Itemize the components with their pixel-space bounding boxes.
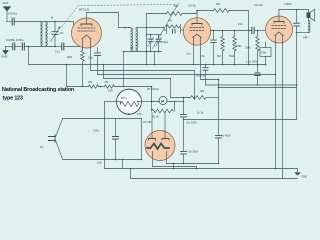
resistor R5 [234,31,236,65]
tube V1 plate [81,23,92,25]
junction node [28,46,30,48]
svg-text:2u 3u: 2u 3u [197,112,204,115]
ground GND right [295,173,300,175]
svg-text:+2u 350V: +2u 350V [186,122,197,125]
dashed gang line [62,5,177,28]
svg-text:170pA: 170pA [161,41,169,44]
svg-text:60 1A: 60 1A [152,116,159,119]
rectifier filament leads [153,152,167,167]
speaker HP [307,9,315,21]
capacitor C9 2u [181,114,187,117]
resistor R1 200 cathode [82,48,84,87]
capacitor C10 2u [181,151,187,154]
svg-text:12Y-4u: 12Y-4u [188,5,196,8]
ground GND left [3,47,8,55]
AC rail top y118 [63,118,142,120]
resistor R9 30k [191,96,207,100]
filter line y97 [171,97,191,99]
svg-text:0.1u: 0.1u [186,53,191,56]
bus y74 [98,74,276,76]
capacitor C3 [22,43,24,50]
svg-text:VC: VC [130,47,134,50]
svg-text:0.001u: 0.001u [8,12,18,16]
tube V1 cathode [82,35,91,39]
svg-text:0.005u 0.05u: 0.005u 0.05u [6,38,24,42]
trimmer capacitor CT1 [148,35,154,52]
tube V1 envelope [72,18,102,48]
bus y78 [104,79,171,98]
svg-text:type 123: type 123 [3,96,24,102]
svg-text:1.5k: 1.5k [200,55,205,58]
bus y70 [91,71,195,98]
capacitor C1 0.001u [12,18,14,25]
tube V3 envelope [266,16,293,43]
wire meter to filter [175,101,184,103]
tube V2 cathode leads [193,45,195,65]
wire to coil bottom [25,46,55,48]
svg-text:UX-120: UX-120 [254,4,263,7]
svg-text:National Broadcasting station: National Broadcasting station [2,87,74,93]
svg-text:GND: GND [1,55,9,59]
filter rail x183 [183,98,185,164]
svg-text:GND: GND [302,176,308,179]
svg-text:250k: 250k [245,47,251,50]
svg-text:500k 2u: 500k 2u [196,75,206,78]
svg-text:3u 450V: 3u 450V [222,135,232,138]
wire y119.5 filter [184,119,297,121]
wire x104 ballast feed [104,102,106,169]
svg-text:200: 200 [67,55,72,59]
svg-text:HP: HP [304,36,308,40]
svg-text:697-1: 697-1 [121,98,128,100]
svg-text:0.1u: 0.1u [238,23,243,26]
potentiometer 50k on y13 [147,13,167,15]
meter M [159,97,167,105]
capacitor C8 output [296,10,298,23]
svg-text:+2u 350V: +2u 350V [188,151,199,154]
capacitor C5 bypass [97,48,99,53]
coil HP [308,21,310,33]
wire V1 plate to T2 [87,13,132,28]
tube V1 grids [78,27,95,29]
wire trimmer feed [147,34,162,36]
ballast inner zigzag circle outline [117,90,142,115]
grid leak R6 [257,30,259,32]
svg-text:0.006u: 0.006u [284,3,292,6]
wire y163 [167,163,219,165]
wire V1 filament [90,48,92,71]
tube V3 cathode [275,32,283,36]
resistor R3 20k plate load [197,10,214,12]
svg-text:UX-280: UX-280 [143,121,152,124]
wire T2 secondary top [136,27,147,29]
bus y64 [29,64,267,66]
grid RC R2 2M [164,25,184,34]
wire second line [219,87,297,89]
wire V2 plate RC line y30 [211,30,252,32]
AC rail bottom y159 [63,159,142,161]
capacitor C7 [213,31,215,40]
wire gnd line [6,46,13,48]
capacitor C2 [13,43,15,50]
transformer T2 secondary [136,28,137,51]
tube V2 envelope [183,18,210,45]
svg-text:M: M [161,99,164,103]
resistor R8 60 shunt [152,102,175,112]
svg-text:0.5u: 0.5u [88,57,93,60]
wire x173 drop [173,164,175,169]
capacitor C13 cathode bypass V3 [257,65,259,73]
wire x146 riser [146,14,148,65]
wire V3 plate out [279,9,309,11]
AC plug [49,119,63,159]
svg-text:700: 700 [261,51,266,55]
resistor R4 [222,31,224,65]
capacitor C12 line cap [115,119,117,137]
lower loop line [131,169,298,179]
svg-text:1.0u 150V: 1.0u 150V [246,61,258,64]
svg-text:AC: AC [40,146,44,149]
capacitor C4 on cathode line [55,46,61,48]
svg-text:100: 100 [88,81,93,84]
svg-text:500k: 500k [229,55,235,58]
rectifier filament [147,144,169,150]
tube V3 grids [272,25,286,27]
ballast tube [117,89,142,114]
wire under rectifier [153,167,197,169]
svg-text:0.05u: 0.05u [93,130,100,133]
wire B+ top line [206,84,297,86]
tube V3 plate [274,21,284,23]
capacitor C14 2u [205,65,207,86]
tube V3 leads [275,43,277,169]
svg-text:0.5h: 0.5h [97,162,102,165]
wire drop x28 [28,47,30,65]
svg-text:20H: 20H [108,90,113,93]
capacitor C6 coupling [252,28,254,34]
variable capacitor VC1 [51,22,61,47]
svg-text:2H 100mA: 2H 100mA [147,88,159,91]
wire node to tube V1 grid [55,22,74,31]
tube V2 cathode [193,34,201,38]
gang diagonal link [153,4,179,49]
transformer T2 primary [131,28,136,51]
wire x154 drop [154,52,156,65]
svg-text:475k: 475k [236,45,242,48]
tube V2 grids [190,27,204,29]
antenna ANT [4,7,11,22]
svg-text:MFT-101: MFT-101 [79,9,90,12]
wire antenna to C1 [7,21,12,23]
svg-text:0.5h: 0.5h [137,113,142,116]
junction dots T1 [54,21,56,23]
svg-text:M: M [51,17,53,20]
ground bus y170 [105,169,298,173]
wire x141 [141,119,143,160]
svg-text:0.1u: 0.1u [55,51,60,54]
tube V2 plate [192,23,202,25]
rectifier plates [149,138,170,140]
resistor R7 700 box [265,42,267,48]
heater bus y86 [67,65,89,87]
filter rail x218 [218,80,220,164]
junction dots buses [66,64,68,66]
transformer T1 secondary [46,22,47,46]
wire C1 to T1 [15,21,55,23]
wire [15,46,22,48]
svg-text:ANT: ANT [3,1,9,5]
capacitor C11 3u [216,135,222,138]
rectifier V4 envelope [145,131,175,161]
trimmer capacitor CT2 [156,35,162,52]
svg-text:2M: 2M [168,20,171,23]
wire T2 bottoms y53 [124,51,162,53]
transformer T1 primary [41,22,46,46]
